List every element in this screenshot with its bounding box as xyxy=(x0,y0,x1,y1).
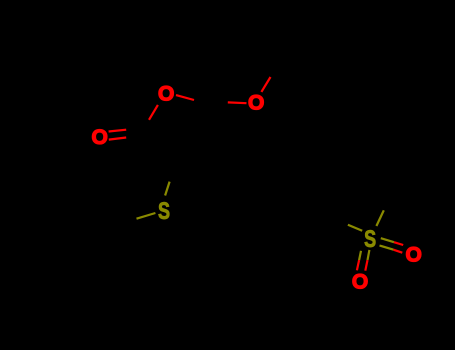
wire S=O lower double bond left line (S half olive) xyxy=(359,251,361,260)
wire C5-OMe half-bond xyxy=(228,101,247,104)
wire S-CH3 half-bond xyxy=(376,210,383,226)
svg-text:S: S xyxy=(364,226,376,253)
wire S-CH3 half-bond xyxy=(137,213,156,219)
svg-text:S: S xyxy=(158,198,170,225)
wire C2=O double bond upper half xyxy=(109,130,127,132)
svg-text:O: O xyxy=(158,82,174,105)
wire C2=O double bond lower half xyxy=(109,138,126,140)
wire O1-C5 half-bond xyxy=(176,95,194,100)
svg-text:O: O xyxy=(248,91,264,114)
wire O1-C2 half-bond xyxy=(149,105,158,120)
wire S=O lower double bond left line (O half red) xyxy=(357,260,359,270)
svg-text:O: O xyxy=(91,126,107,149)
svg-text:O: O xyxy=(406,243,422,266)
wire S=O right double bond upper line (O half red) xyxy=(394,242,403,245)
wire S=O lower double bond right line (S half olive) xyxy=(368,250,370,260)
wire S-aryl half-bond xyxy=(348,225,362,231)
wire S=O right double bond lower line (O half red) xyxy=(394,250,403,253)
wire S=O right double bond upper line (S half olive) xyxy=(381,238,394,242)
svg-text:O: O xyxy=(352,270,368,293)
wire OMe-CH3 half-bond xyxy=(261,77,270,92)
wire S-C3 half-bond xyxy=(165,182,170,196)
wire S=O right double bond lower line (S half olive) xyxy=(380,246,394,250)
wire S=O lower double bond right line (O half red) xyxy=(365,260,367,271)
